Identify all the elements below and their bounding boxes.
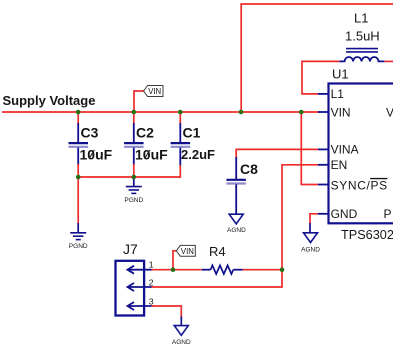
svg-text:VIN: VIN bbox=[148, 87, 161, 96]
wire R4 to EN bus bbox=[243, 269, 283, 271]
wire supply rail bbox=[2, 111, 319, 113]
net flag VIN (at J7) bbox=[176, 245, 195, 256]
svg-text:EN: EN bbox=[331, 158, 348, 172]
svg-text:AGND: AGND bbox=[172, 339, 191, 346]
wire VIN flag 2 stem bbox=[173, 251, 176, 270]
pin EN bbox=[318, 158, 347, 172]
svg-text:C2: C2 bbox=[136, 124, 154, 140]
junction supply/C1 bbox=[178, 110, 183, 115]
svg-text:R4: R4 bbox=[209, 244, 226, 259]
pin SYNC/PS with overline bbox=[318, 178, 388, 192]
inductor L1 bbox=[339, 11, 384, 62]
wire EN net vertical bus bbox=[152, 165, 319, 287]
junction J7 pin1/VIN flag bbox=[171, 267, 176, 272]
svg-text:3: 3 bbox=[149, 296, 154, 306]
wire top loop horizontal bbox=[240, 3, 393, 5]
svg-text:1.5uH: 1.5uH bbox=[345, 29, 380, 44]
ground PGND (bottom left) bbox=[69, 223, 88, 250]
svg-text:L1: L1 bbox=[354, 11, 368, 26]
svg-text:10uF: 10uF bbox=[135, 146, 168, 162]
svg-text:L1: L1 bbox=[331, 87, 345, 101]
connector J7 bbox=[116, 241, 145, 316]
net flag VIN (top) bbox=[144, 86, 163, 97]
svg-text:AGND: AGND bbox=[301, 247, 320, 254]
capacitor C2 bbox=[124, 112, 168, 177]
svg-text:V: V bbox=[386, 105, 393, 119]
junction supply/C2 bbox=[132, 110, 137, 115]
op IC U1 box bbox=[329, 67, 393, 224]
pin 1 of J7 bbox=[128, 260, 154, 274]
svg-text:AGND: AGND bbox=[227, 227, 246, 234]
svg-text:2.2uF: 2.2uF bbox=[181, 147, 215, 162]
svg-text:U1: U1 bbox=[332, 67, 349, 82]
pin GND bbox=[318, 207, 358, 221]
svg-text:TPS63020: TPS63020 bbox=[341, 228, 393, 242]
svg-text:GND: GND bbox=[331, 207, 358, 221]
pin VIN bbox=[318, 105, 351, 119]
svg-text:C3: C3 bbox=[81, 124, 99, 140]
ground AGND (GND pin) bbox=[301, 223, 320, 254]
svg-text:PGND: PGND bbox=[69, 243, 88, 250]
svg-text:P: P bbox=[384, 207, 392, 221]
wire VIN flag 1 stem bbox=[134, 91, 144, 112]
ground AGND (J7 pin3) bbox=[172, 317, 191, 347]
resistor R4 bbox=[202, 244, 243, 274]
svg-text:2: 2 bbox=[149, 277, 154, 287]
junction R4/EN bus bbox=[280, 267, 285, 272]
svg-text:10uF: 10uF bbox=[80, 146, 113, 162]
junction bottom bus/C3 bbox=[76, 175, 81, 180]
junction supply/SYNC bus bbox=[299, 110, 304, 115]
wire PGND drop (left) bbox=[77, 177, 79, 224]
svg-text:VIN: VIN bbox=[331, 105, 351, 119]
pin 2 of J7 bbox=[128, 277, 154, 291]
svg-text:C1: C1 bbox=[183, 124, 201, 140]
wire L1 pin connection bbox=[302, 61, 339, 94]
svg-text:VIN: VIN bbox=[181, 247, 194, 256]
ground PGND (under C2) bbox=[124, 177, 143, 204]
capacitor C8 bbox=[226, 157, 258, 214]
capacitor C1 bbox=[171, 112, 215, 166]
capacitor C3 bbox=[69, 112, 113, 177]
pin L1 bbox=[318, 87, 344, 101]
wire top loop vertical bbox=[240, 4, 242, 112]
wire GND pin to AGND bbox=[310, 214, 318, 224]
junction bottom bus/C2 bbox=[132, 175, 137, 180]
svg-text:J7: J7 bbox=[123, 241, 138, 257]
svg-text:Supply Voltage: Supply Voltage bbox=[3, 93, 96, 108]
svg-text:SYNC/PS: SYNC/PS bbox=[331, 178, 388, 192]
svg-text:C8: C8 bbox=[240, 161, 258, 177]
junction supply/C3 bbox=[76, 110, 81, 115]
wire VINA / C8 net bbox=[236, 149, 318, 158]
ground AGND (under C8) bbox=[227, 214, 246, 234]
pin 3 of J7 bbox=[128, 296, 154, 310]
wire capacitor bottom bus bbox=[78, 165, 180, 177]
svg-text:1: 1 bbox=[149, 260, 154, 270]
wire SYNC net from supply junction bbox=[301, 112, 318, 185]
junction supply/top loop bbox=[239, 110, 244, 115]
wire inductor right lead bbox=[384, 60, 393, 62]
svg-text:PGND: PGND bbox=[124, 197, 143, 204]
wire J7 pin3 to AGND bbox=[152, 306, 182, 318]
svg-text:VINA: VINA bbox=[331, 143, 359, 157]
pin VINA bbox=[318, 143, 359, 157]
wire J7 pin1 to R4 bbox=[152, 269, 202, 271]
